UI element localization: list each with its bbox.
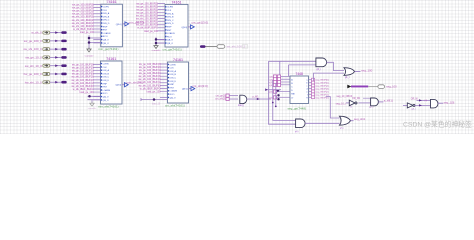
svg-text:7448: 7448 [296, 72, 304, 76]
watermark [403, 119, 472, 128]
counter U1 (74161) [72, 0, 145, 51]
bus seg_100_OBUF [347, 85, 397, 89]
input port sw_shi_100_0 [23, 47, 66, 51]
svg-text:74161: 74161 [173, 58, 183, 62]
svg-text:cnt_shi[3]: cnt_shi[3] [215, 98, 226, 101]
svg-text:g5_i: g5_i [340, 128, 345, 130]
svg-text:74161: 74161 [107, 0, 117, 4]
input port w_clk_0 [31, 31, 66, 35]
svg-text:seg_OBUF[5]: seg_OBUF[5] [315, 83, 329, 85]
feedback wire loop [269, 61, 345, 124]
svg-text:seg_10_OBUF: seg_10_OBUF [337, 95, 353, 98]
svg-text:sw_ge_100_IBUF[3]sw_ge_100_IBU: sw_ge_100_IBUF[3]sw_ge_100_IBUF[2]sw_ge_… [72, 4, 95, 34]
svg-text:seg_OBUF[0]: seg_OBUF[0] [315, 97, 329, 99]
const cluster near U4 [141, 98, 168, 106]
svg-text:g4_i: g4_i [295, 131, 300, 133]
svg-text:I1: I1 [350, 107, 353, 109]
decoder U5 (7448) [288, 72, 329, 110]
counter U2 (74161) [136, 0, 208, 51]
AND gate g0 [316, 58, 344, 71]
svg-text:w_clk_0: w_clk_0 [31, 31, 42, 35]
svg-text:seg_100: seg_100 [386, 85, 397, 89]
svg-text:load_i: load_i [238, 105, 245, 107]
svg-text:seg_10_i: seg_10_i [336, 102, 347, 105]
input port sw_shi_10_0 [25, 64, 67, 68]
svg-text:p_W1: p_W1 [253, 96, 260, 98]
svg-text:a_W[1]: a_W[1] [384, 98, 393, 102]
svg-text:Q[3:0]: Q[3:0] [116, 24, 122, 26]
svg-text:seg_shi1: seg_shi1 [354, 117, 366, 121]
const cluster near U3 [88, 95, 101, 110]
svg-text:g0_i: g0_i [317, 69, 322, 71]
svg-text:<const0>: <const0> [152, 49, 162, 52]
svg-text:74161: 74161 [172, 0, 182, 4]
svg-text:Q[3:0]: Q[3:0] [182, 89, 188, 91]
svg-text:s[3]: s[3] [269, 77, 273, 79]
OR gate g1 [344, 68, 373, 80]
svg-text:sw_ge_100_IBUF[3]sw_ge_100_IBU: sw_ge_100_IBUF[3]sw_ge_100_IBUF[2]sw_ge_… [71, 64, 94, 94]
svg-text:cnt_ge1[3:0]: cnt_ge1[3:0] [192, 20, 209, 24]
svg-text:seg_OBUF[3]: seg_OBUF[3] [315, 88, 329, 90]
svg-text:seg_OBUF[2]: seg_OBUF[2] [315, 91, 329, 93]
const cluster near U2 [152, 37, 166, 52]
svg-text:[0]: [0] [425, 100, 428, 102]
cluster seg_10 inverter+AND [336, 95, 393, 109]
svg-text:74161: 74161 [106, 57, 116, 61]
input port hw_ge_100_0 [24, 72, 67, 76]
svg-text:hw_shi_10_0: hw_shi_10_0 [25, 80, 42, 84]
output port sw_shi_100_2 [200, 45, 248, 49]
svg-text:seg_ge(7448): seg_ge(7448) [288, 106, 307, 110]
svg-text:hw_ge_100_0: hw_ge_100_0 [24, 72, 43, 76]
counter U3 (74161) [71, 57, 142, 109]
svg-text:seg_OBUF[4]: seg_OBUF[4] [315, 86, 329, 88]
svg-text:OR_W1: OR_W1 [352, 98, 361, 100]
svg-text:<const0>: <const0> [85, 54, 95, 57]
svg-text:cnt_shi[3:0]: cnt_shi[3:0] [192, 84, 208, 88]
svg-text:cnt_ge(74161): cnt_ge(74161) [163, 47, 182, 51]
AND gate g_load [238, 88, 281, 107]
bus tap grid into 7448 [269, 75, 290, 101]
svg-text:seg_OBUF[6]: seg_OBUF[6] [315, 80, 329, 82]
input port hw_shi_10_0 [25, 80, 67, 84]
svg-text:sw_ge_100_0: sw_ge_100_0 [24, 39, 42, 43]
input port sw_ge_10_0 [25, 56, 66, 60]
svg-text:cnt_shi(74161): cnt_shi(74161) [165, 103, 185, 107]
svg-text:min_shi(74161): min_shi(74161) [98, 104, 119, 108]
svg-text:sw_ge_100_IBUF[3]sw_ge_100_IBU: sw_ge_100_IBUF[3]sw_ge_100_IBUF[2]sw_ge_… [138, 63, 161, 93]
svg-text:g3_i: g3_i [412, 108, 417, 110]
svg-text:Q[3:0]: Q[3:0] [181, 27, 187, 29]
svg-text:g1_i: g1_i [345, 77, 350, 79]
svg-text:CSDN @某色的神秘签: CSDN @某色的神秘签 [403, 119, 472, 128]
svg-text:<const0>: <const0> [88, 107, 97, 110]
counter U4 (74161) [138, 58, 207, 108]
svg-text:sw_ge_100_IBUF[3]sw_ge_100_IBU: sw_ge_100_IBUF[3]sw_ge_100_IBUF[2]sw_ge_… [136, 2, 159, 32]
svg-text:min_ge(74161): min_ge(74161) [98, 47, 118, 51]
svg-text:sw_ge_10_0: sw_ge_10_0 [25, 56, 42, 60]
const cluster near U1 (clk/gnd) [85, 35, 101, 57]
svg-text:seg_100: seg_100 [361, 68, 372, 72]
input port sw_ge_100_0 [24, 39, 67, 43]
svg-text:sw_shi_10_0: sw_shi_10_0 [25, 64, 42, 68]
svg-text:seg_1[0]: seg_1[0] [444, 100, 455, 104]
svg-text:load_10: load_10 [152, 104, 161, 106]
svg-text:g2_i: g2_i [369, 107, 374, 109]
OR gate bottom [340, 116, 366, 129]
AND gate bottom [295, 119, 340, 133]
svg-text:sw_shi_100_0: sw_shi_100_0 [23, 47, 42, 51]
bus taps into AND g_load [215, 94, 238, 101]
svg-text:Q[3:0]: Q[3:0] [115, 85, 121, 87]
cluster seg_1 inverter+AND [403, 98, 455, 110]
